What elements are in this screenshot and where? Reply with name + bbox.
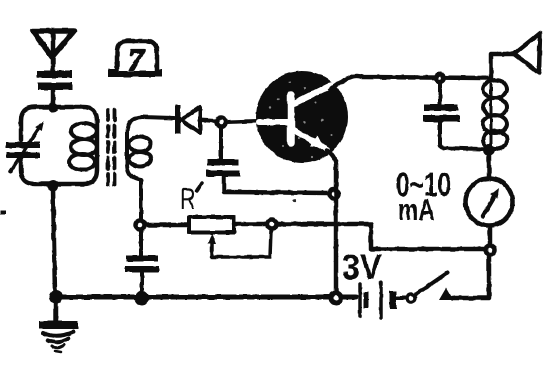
inductor L1 (tank coil) — [71, 123, 97, 139]
wire — [440, 122, 482, 149]
node (C3 to rail) — [135, 291, 150, 306]
wire — [51, 90, 56, 106]
inductor L3 (output coil) — [490, 84, 493, 148]
node (meter bottom junction) — [486, 246, 495, 255]
node (resistor right) — [268, 220, 277, 229]
bottom rail wire — [56, 295, 356, 300]
tank loop wire (rounded rectangle) — [21, 107, 97, 184]
wire (secondary bottom lead) — [139, 180, 143, 220]
diode D1 — [175, 105, 181, 134]
label R' — [182, 188, 195, 209]
capacitor C3 — [139, 230, 143, 255]
wire — [396, 296, 406, 300]
wire (meter top) — [487, 153, 492, 178]
label 0~10 mA — [397, 172, 450, 220]
node (coil bottom junction) — [483, 144, 495, 156]
node (emitter to rail) — [331, 293, 341, 303]
battery B1 3V — [358, 284, 362, 316]
meter M1 — [466, 179, 513, 226]
variable capacitor arrow — [10, 125, 41, 172]
switch S1 — [407, 294, 415, 302]
wire (to base) — [227, 121, 258, 122]
antenna lead wire — [51, 33, 56, 71]
wire (node to resistor) — [146, 223, 189, 228]
label 3V — [343, 254, 382, 279]
wire — [140, 273, 144, 292]
wire (to earphone) — [491, 54, 513, 79]
capacitor C2 — [219, 127, 223, 159]
variable capacitor VC plates — [6, 142, 40, 158]
antenna — [33, 31, 74, 57]
wire (left drop to ground rail) — [53, 189, 55, 294]
wire — [200, 120, 216, 121]
wire (emitter drop) — [327, 150, 336, 294]
node A (diode / base junction) — [217, 118, 226, 127]
wire — [452, 255, 489, 298]
node (transformer secondary bottom) — [136, 221, 145, 230]
stray speck — [292, 199, 295, 202]
wire (secondary spine) — [127, 117, 142, 180]
wire (collector to top rail) — [330, 76, 487, 90]
transformer core — [106, 110, 110, 186]
wire (secondary top lead) — [142, 117, 174, 118]
capacitor C1 (antenna coupling) — [37, 71, 72, 91]
wire (R' to battery plus, crossing emitter) — [278, 224, 484, 249]
wire — [488, 226, 493, 245]
resistor R' — [189, 217, 234, 233]
inductor L2 (secondary) — [129, 137, 151, 152]
node (tank bottom) — [48, 181, 59, 192]
node (ground junction) — [49, 290, 63, 304]
wiper arrow of R' — [208, 234, 216, 244]
earphone — [514, 33, 540, 73]
node (rail / C4 junction) — [434, 72, 446, 84]
node (emitter line junction) — [330, 190, 339, 199]
wire — [224, 177, 330, 193]
stray mark — [0, 210, 6, 214]
transistor Q1 — [256, 71, 348, 163]
wire — [234, 222, 266, 227]
node (tank top) — [48, 103, 58, 113]
capacitor C4 — [438, 83, 442, 105]
ground — [54, 300, 59, 321]
figure badge 7 — [108, 69, 162, 77]
